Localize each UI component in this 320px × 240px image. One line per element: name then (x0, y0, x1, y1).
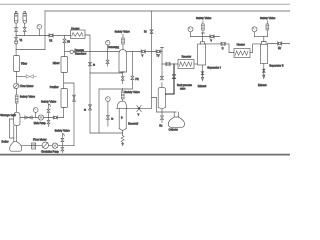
svg-text:Separator II: Separator II (269, 64, 284, 68)
wire heater1 out to x90 elbow (85, 35, 90, 133)
svg-text:PR: PR (135, 79, 139, 81)
gauge PG3 (252, 27, 257, 37)
valve V5 on y117.5 (25, 116, 32, 119)
pressure gauge PG1 (37, 24, 42, 29)
separator I drain + exhaust (198, 65, 207, 88)
purifier column (50, 85, 68, 107)
gas cylinder B2 (23, 11, 27, 27)
svg-text:Collector: Collector (169, 129, 178, 132)
safety valve SV7 stack at x62.5 (55, 128, 71, 152)
wire y133 (90, 132, 123, 134)
heater H2 (234, 42, 250, 57)
svg-text:Reservoir: Reservoir (128, 123, 138, 126)
cooler box (32, 143, 36, 149)
wire x45 down from top line to y49.5 (44, 11, 46, 50)
svg-text:Safety Valve: Safety Valve (41, 99, 57, 103)
svg-text:Transducer: Transducer (75, 53, 87, 56)
pressure regulator PR1 below manifold (15, 36, 17, 38)
mixer column M1 (61, 57, 68, 73)
wire x151.5 main vertical (151, 11, 153, 108)
svg-text:Exhaust: Exhaust (258, 84, 267, 87)
valve V10 on x132.5 (131, 76, 134, 80)
filter F1 (14, 50, 28, 84)
valve V13 on x151.5 top (144, 30, 153, 34)
wire y64 reactor line (162, 63, 178, 65)
svg-text:valve: valve (180, 88, 186, 90)
svg-text:V1: V1 (20, 40, 24, 42)
wire y36.5 (191, 36, 220, 38)
svg-text:m: m (93, 65, 95, 67)
pressure transducer PT1 (65, 49, 87, 55)
ball valve BV5 on y64 (166, 62, 170, 66)
drain valve V9 under column S (121, 77, 124, 81)
wire y43.5 to right edge (268, 43, 290, 45)
safety valve SV2 stack above line (41, 99, 57, 117)
svg-text:Safety Valve: Safety Valve (125, 90, 141, 94)
svg-text:Q: Q (222, 48, 224, 50)
flow meter FM2 (33, 137, 49, 148)
svg-text:Filter: Filter (21, 61, 27, 65)
wire x132.5 branch down (131, 52, 133, 77)
svg-text:Separator I: Separator I (207, 65, 221, 69)
svg-text:EV: EV (278, 48, 282, 50)
wire x162 from cap down (161, 48, 164, 77)
bottom border line (0, 154, 290, 156)
wire heater2 out to separator II (250, 44, 260, 53)
flow meter FM1 (14, 83, 34, 88)
svg-text:m: m (84, 110, 86, 112)
column C (back pressure column) (158, 83, 165, 113)
svg-text:TV: TV (156, 56, 159, 58)
vent valve V8 x107.5 (106, 45, 109, 66)
boiler flask (2, 140, 22, 152)
wire y36.5 right train (255, 36, 268, 38)
gauge PG5 with stem (106, 41, 117, 50)
wire tank drop tube to boiler flask (14, 126, 17, 142)
wire purge branch y76.5 with valve V4 (17, 76, 27, 78)
svg-text:V: V (210, 41, 212, 43)
collector flask (168, 112, 184, 132)
svg-text:P.I: P.I (144, 31, 147, 33)
wire circulation bottom y145.5 (21, 145, 74, 147)
wire tank side bypass (10, 119, 14, 138)
gas cylinder B1 (14, 11, 18, 27)
ball valve BV7 on y44 (221, 42, 225, 50)
svg-text:Heater: Heater (237, 42, 245, 46)
valve V11 on x90 (88, 62, 95, 66)
wire y73 from x90 to column S drain (90, 72, 123, 74)
wire y108.5 bell to x151.5 (127, 107, 151, 109)
wire y51.5 right of dome (126, 51, 162, 53)
ball valve BV8 on y43.5 (278, 42, 282, 50)
main pump P1 (34, 115, 46, 125)
ball valve BV2 on y117.5 (53, 116, 57, 119)
svg-text:V: V (138, 114, 140, 116)
svg-text:Purifier: Purifier (50, 85, 59, 89)
svg-text:Boiler: Boiler (2, 140, 9, 144)
svg-text:Safety Valve: Safety Valve (260, 16, 276, 20)
svg-text:Exhaust: Exhaust (198, 85, 207, 88)
valve V3 mixer feed (63, 39, 66, 43)
svg-text:Safety Valve: Safety Valve (20, 94, 36, 98)
gauge PG6 with drain valve (106, 97, 114, 126)
globe valve GV1 on y108.5 (137, 105, 141, 116)
svg-text:Storage tank: Storage tank (0, 113, 16, 117)
valve V12 on x90 lower (84, 105, 92, 112)
svg-text:Flow Meter: Flow Meter (20, 84, 34, 88)
wire y112 to collector (157, 111, 177, 113)
back pressure valve (bold) (166, 64, 176, 94)
valve V14 above column C (160, 76, 163, 80)
wire top main line y11 (45, 10, 290, 12)
svg-text:Reactor: Reactor (182, 54, 192, 58)
wire y49.5 from x16 to x45 (16, 49, 45, 51)
top border line (0, 3, 290, 5)
valve V6 drain below line (47, 118, 50, 127)
wire branch to collector line (152, 98, 157, 113)
svg-text:Mixer: Mixer (53, 61, 60, 65)
svg-text:Safety Valve: Safety Valve (55, 128, 71, 132)
svg-text:V2: V2 (49, 40, 53, 42)
wire bottom line y117.5 (20, 117, 64, 119)
safety valve SV6 (260, 16, 276, 36)
valve V2 under cylinder B2 (23, 28, 26, 32)
gauge PG2 (188, 27, 193, 37)
wire y51.5 PT to column S dome (73, 51, 119, 53)
svg-text:Safety Valve: Safety Valve (115, 29, 131, 33)
wire mixer bottom to purifier top (63, 73, 65, 89)
separator I (198, 42, 221, 70)
wire sep II cap stub (263, 37, 265, 42)
ball valve BV6 on y36.5 (210, 35, 214, 43)
svg-text:S: S (121, 118, 123, 120)
reactor R1 (178, 54, 198, 68)
ball valve BV3 on y51.5 (141, 50, 145, 58)
wire y44 from separator I cap (204, 44, 234, 53)
svg-text:Back pressure: Back pressure (177, 84, 193, 87)
wire circulation branch y83 to x74 (64, 83, 74, 146)
wire manifold y35.5 (16, 35, 71, 37)
safety valve SV4 on reservoir dome (121, 89, 140, 102)
ball valve BV4 on y51.5 (156, 50, 160, 58)
svg-text:V3: V3 (67, 41, 71, 43)
svg-text:Circulation Pump: Circulation Pump (41, 150, 59, 153)
ball valve BV1 on manifold (49, 34, 53, 43)
column S with dome (119, 50, 126, 77)
svg-text:Rx: Rx (159, 126, 163, 128)
heater H1 (71, 26, 86, 38)
valve V1 under cylinder B1 (15, 28, 18, 32)
storage tank T1 (0, 112, 20, 125)
svg-text:V: V (142, 56, 144, 58)
valve V7 on x74 (73, 95, 76, 101)
wire cap stub up (202, 33, 204, 42)
svg-text:Main Pump: Main Pump (34, 123, 46, 125)
separator II (260, 42, 283, 68)
svg-text:Flow Meter: Flow Meter (33, 137, 47, 141)
safety valve SV1 (spring) (15, 89, 35, 112)
separator II drain + exhaust (258, 64, 267, 87)
drain coil under reservoir (121, 136, 124, 146)
svg-text:m: m (111, 118, 113, 120)
pressure gauge PG4 (33, 108, 38, 113)
svg-text:Safety Valve: Safety Valve (196, 16, 212, 20)
safety valve SV5 (196, 16, 212, 33)
drain valve V15 below y112 (159, 112, 163, 128)
circulation pump P2 (41, 143, 59, 153)
wire corner up to purifier (63, 108, 65, 118)
safety valve SV3 above column S (115, 29, 131, 49)
reservoir bell vessel (117, 101, 139, 135)
svg-text:PR: PR (116, 47, 120, 49)
